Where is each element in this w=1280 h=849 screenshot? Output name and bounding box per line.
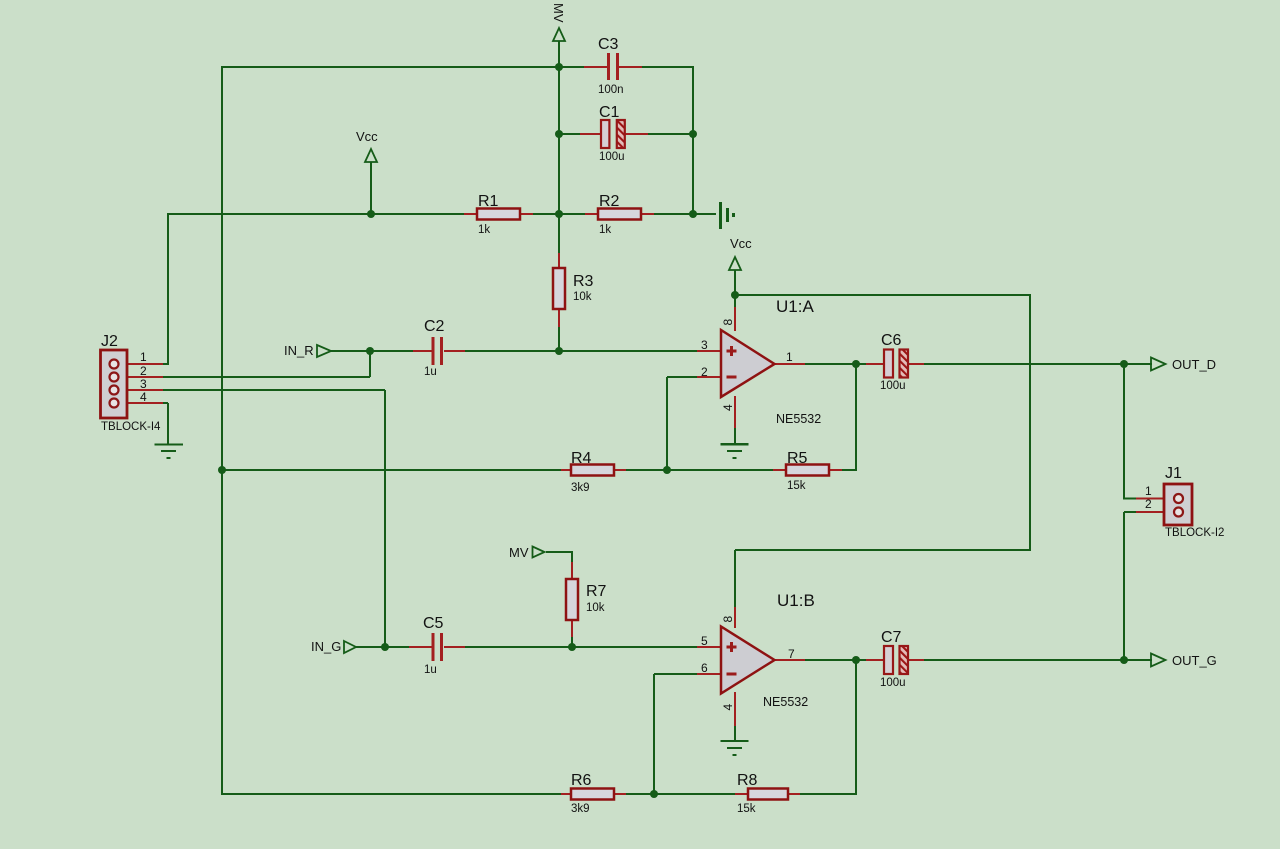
svg-text:3: 3 (140, 377, 147, 391)
svg-text:5: 5 (701, 634, 708, 648)
svg-text:8: 8 (721, 319, 735, 326)
svg-text:3k9: 3k9 (571, 803, 590, 815)
svg-text:2: 2 (140, 364, 147, 378)
svg-text:R7: R7 (586, 583, 607, 600)
svg-text:R1: R1 (478, 193, 499, 210)
svg-text:Vcc: Vcc (356, 129, 378, 144)
svg-text:1k: 1k (478, 224, 490, 236)
svg-text:Vcc: Vcc (730, 236, 752, 251)
svg-text:100u: 100u (599, 151, 625, 163)
svg-text:3k9: 3k9 (571, 482, 590, 494)
svg-text:15k: 15k (737, 803, 756, 815)
svg-text:6: 6 (701, 661, 708, 675)
svg-text:1: 1 (140, 350, 147, 364)
svg-text:1: 1 (1145, 484, 1152, 498)
svg-text:15k: 15k (787, 480, 806, 492)
svg-text:2: 2 (1145, 497, 1152, 511)
svg-text:4: 4 (721, 404, 735, 411)
svg-text:R8: R8 (737, 772, 758, 789)
svg-text:10k: 10k (573, 291, 592, 303)
svg-text:J1: J1 (1165, 465, 1182, 482)
svg-text:NE5532: NE5532 (763, 695, 808, 709)
svg-text:NE5532: NE5532 (776, 412, 821, 426)
svg-text:4: 4 (140, 390, 147, 404)
svg-text:100n: 100n (598, 84, 624, 96)
svg-text:R2: R2 (599, 193, 620, 210)
svg-text:OUT_D: OUT_D (1172, 357, 1216, 372)
svg-text:C7: C7 (881, 629, 902, 646)
svg-text:8: 8 (721, 616, 735, 623)
svg-text:1u: 1u (424, 664, 437, 676)
svg-text:1u: 1u (424, 366, 437, 378)
svg-text:R6: R6 (571, 772, 592, 789)
svg-text:U1:B: U1:B (777, 591, 815, 610)
svg-text:TBLOCK-I2: TBLOCK-I2 (1165, 527, 1224, 539)
svg-text:R5: R5 (787, 450, 808, 467)
svg-text:3: 3 (701, 338, 708, 352)
svg-text:100u: 100u (880, 677, 906, 689)
svg-text:100u: 100u (880, 380, 906, 392)
svg-text:J2: J2 (101, 333, 118, 350)
svg-text:2: 2 (701, 365, 708, 379)
svg-text:C2: C2 (424, 318, 445, 335)
svg-text:U1:A: U1:A (776, 297, 814, 316)
svg-text:TBLOCK-I4: TBLOCK-I4 (101, 421, 161, 433)
svg-text:C1: C1 (599, 104, 620, 121)
svg-text:C3: C3 (598, 36, 619, 53)
svg-text:IN_G: IN_G (311, 639, 341, 654)
svg-text:7: 7 (788, 647, 795, 661)
svg-text:1k: 1k (599, 224, 611, 236)
svg-text:C5: C5 (423, 615, 444, 632)
svg-text:R3: R3 (573, 273, 594, 290)
svg-text:R4: R4 (571, 450, 592, 467)
svg-text:1: 1 (786, 350, 793, 364)
svg-text:C6: C6 (881, 332, 902, 349)
svg-text:OUT_G: OUT_G (1172, 653, 1217, 668)
svg-text:MV: MV (509, 545, 529, 560)
svg-text:IN_R: IN_R (284, 343, 314, 358)
svg-text:4: 4 (721, 704, 735, 711)
svg-text:10k: 10k (586, 602, 605, 614)
svg-text:MV: MV (551, 3, 566, 23)
